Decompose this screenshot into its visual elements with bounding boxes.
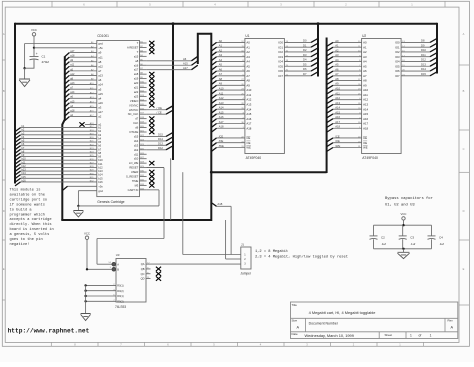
svg-text:IO3: IO3: [278, 55, 283, 59]
svg-text:Bypass capacitors for: Bypass capacitors for: [385, 196, 433, 201]
svg-text:QD: QD: [141, 277, 145, 281]
svg-text:A18: A18: [217, 202, 222, 206]
svg-text:/CE: /CE: [219, 134, 224, 138]
svg-text:A17: A17: [219, 120, 224, 124]
power symbol VCC (top-left): [32, 33, 35, 36]
svg-text:IO7: IO7: [278, 74, 283, 78]
svg-text:2: 2: [244, 258, 246, 261]
svg-text:A13: A13: [363, 103, 368, 107]
svg-text:a15: a15: [70, 100, 75, 103]
svg-text:a21: a21: [134, 86, 139, 90]
svg-text:A10: A10: [363, 88, 368, 92]
svg-text:D15: D15: [421, 72, 426, 76]
svg-text:a genesis, 5 volts: a genesis, 5 volts: [10, 232, 50, 237]
svg-text:/CE: /CE: [335, 134, 340, 138]
svg-text:a22: a22: [134, 90, 139, 94]
svg-text:A6: A6: [219, 67, 223, 71]
svg-text:A: A: [463, 32, 465, 36]
svg-text:TIME: TIME: [132, 179, 139, 183]
address bus spur (n-shape top): [198, 34, 212, 64]
svg-text:R9(1): R9(1): [117, 295, 123, 298]
address bus bottom run: [61, 219, 211, 221]
U3 clock pin A bubble: [112, 262, 116, 266]
svg-text:R0(1): R0(1): [117, 285, 123, 288]
svg-text:CD1001: CD1001: [97, 34, 109, 38]
ground (bypass): [403, 249, 405, 253]
bypass top rail: [374, 224, 432, 226]
svg-text:3: 3: [280, 3, 282, 7]
svg-text:Sheet: Sheet: [385, 333, 393, 337]
svg-text:a19: a19: [134, 77, 139, 81]
svg-text:VCC: VCC: [31, 28, 37, 32]
svg-text:QA: QA: [141, 262, 145, 266]
svg-text:A: A: [451, 326, 454, 330]
svg-text:A14: A14: [219, 106, 224, 110]
svg-text:a16: a16: [134, 63, 139, 67]
svg-text:a6: a6: [98, 78, 102, 82]
svg-text:WE: WE: [363, 146, 368, 150]
svg-text:a4: a4: [98, 96, 102, 100]
connector CD1001 body: [97, 41, 140, 197]
svg-text:A14: A14: [363, 107, 368, 111]
svg-text:a17: a17: [134, 68, 139, 72]
svg-text:A0: A0: [246, 41, 250, 45]
svg-text:/OE: /OE: [219, 139, 224, 143]
svg-text:a15: a15: [98, 92, 103, 96]
svg-text:A4: A4: [219, 58, 223, 62]
svg-text:CE: CE: [246, 136, 250, 140]
svg-text:b1: b1: [98, 126, 101, 130]
svg-text:IO1: IO1: [395, 45, 400, 49]
svg-text:goes to the pin: goes to the pin: [10, 237, 43, 242]
svg-text:b13: b13: [98, 169, 103, 173]
svg-text:a18: a18: [70, 109, 75, 112]
svg-text:.1uf: .1uf: [381, 242, 386, 246]
svg-text:D2: D2: [303, 48, 307, 52]
svg-text:C1: C1: [42, 55, 46, 59]
wire QA to J1 pin 3: [151, 263, 241, 265]
svg-text:A8: A8: [219, 77, 223, 81]
svg-text:D1: D1: [303, 43, 307, 47]
wire A18 from bus to J1 pin 1: [217, 205, 232, 207]
power symbol VCC (U3): [85, 236, 88, 239]
svg-text:U1, U2 and U3: U1, U2 and U3: [385, 202, 415, 207]
svg-text:A17: A17: [246, 122, 251, 126]
svg-text:b15: b15: [98, 176, 103, 180]
svg-text:A2: A2: [363, 50, 367, 54]
CD1001 right pins with no-connects and bus entries: [140, 42, 147, 44]
svg-text:LO_WE: LO_WE: [129, 161, 139, 165]
wire VCC to rail: [403, 220, 405, 225]
junction gnd bottom: [77, 205, 79, 207]
svg-text:A: A: [3, 32, 5, 36]
svg-text:a13: a13: [98, 74, 103, 78]
svg-text:C2: C2: [381, 235, 385, 239]
svg-text:board is inserted in: board is inserted in: [10, 227, 54, 232]
svg-text:A9: A9: [335, 82, 339, 86]
svg-text:IO2: IO2: [278, 50, 283, 54]
svg-text:D14: D14: [421, 67, 426, 71]
svg-text:a7: a7: [98, 69, 102, 73]
svg-text:A7: A7: [219, 72, 223, 76]
wire cart-A18 vertical: [182, 172, 184, 254]
svg-text:OE: OE: [246, 141, 250, 145]
svg-text:a8: a8: [98, 60, 102, 64]
svg-text:2,3 = 4 Megabit, High/low togg: 2,3 = 4 Megabit, High/low toggled by res…: [255, 255, 348, 260]
wire +5v pin to VCC node: [34, 47, 97, 49]
svg-text:T: T: [137, 50, 139, 54]
svg-text:A18: A18: [246, 126, 251, 130]
svg-text:C: C: [3, 147, 5, 151]
svg-text:IO0: IO0: [278, 41, 283, 45]
flash U2 AT49F040: [362, 39, 402, 154]
cartridge data bus (vertical x=173): [172, 23, 174, 160]
svg-text:A13: A13: [219, 101, 224, 105]
svg-text:A9: A9: [246, 83, 250, 87]
svg-text:A: A: [117, 262, 119, 266]
svg-text:A10: A10: [246, 88, 251, 92]
U3 clock pin B bubble: [112, 268, 116, 272]
svg-text:A10: A10: [335, 87, 340, 91]
svg-text:/WE: /WE: [335, 144, 340, 148]
svg-text:IO5: IO5: [278, 64, 283, 68]
svg-text:WE: WE: [246, 146, 251, 150]
U2 data bus vertical x=437: [436, 23, 438, 74]
ground (U3): [81, 314, 91, 321]
svg-text:/WE: /WE: [219, 144, 224, 148]
svg-text:gnd: gnd: [98, 189, 103, 193]
svg-text:D14: D14: [158, 137, 163, 141]
svg-text:HSYNC: HSYNC: [129, 108, 138, 112]
svg-text:d15: d15: [134, 134, 139, 138]
svg-text:+5v: +5v: [98, 46, 103, 50]
svg-text:CLK: CLK: [133, 121, 138, 125]
svg-text:C3: C3: [410, 235, 414, 239]
svg-text:b3: b3: [98, 133, 101, 137]
svg-text:A15: A15: [335, 110, 340, 114]
svg-text:E: E: [3, 267, 5, 271]
svg-text:3: 3: [244, 263, 246, 266]
svg-text:1: 1: [430, 334, 432, 338]
svg-text:B: B: [117, 268, 119, 272]
svg-text:R0(2): R0(2): [117, 290, 123, 293]
svg-text:A3: A3: [363, 55, 367, 59]
svg-text:Genesis Cartridge: Genesis Cartridge: [97, 200, 124, 204]
svg-text:a17: a17: [98, 110, 103, 114]
svg-text:A12: A12: [219, 96, 224, 100]
svg-text:6: 6: [83, 3, 85, 7]
svg-text:RESET: RESET: [129, 166, 138, 170]
bus junction at x=318: [317, 22, 320, 25]
svg-text:2: 2: [345, 3, 347, 7]
svg-text:U1: U1: [245, 34, 249, 38]
svg-text:A5: A5: [335, 63, 339, 67]
svg-text:D7: D7: [303, 72, 307, 76]
svg-text:1: 1: [410, 334, 412, 338]
svg-text:A15: A15: [183, 61, 188, 65]
wire ground return y=206: [78, 205, 159, 207]
svg-text:b11: b11: [98, 162, 103, 166]
counter U3 body: [116, 259, 146, 303]
svg-text:C4: C4: [439, 235, 443, 239]
svg-text:a14: a14: [98, 83, 103, 87]
wire gnd down-left vertical: [24, 44, 26, 69]
svg-text:C: C: [463, 147, 465, 151]
jumper J1 body: [241, 247, 251, 269]
wire VCC stem: [33, 36, 35, 48]
svg-text:a18: a18: [70, 55, 75, 58]
svg-text:d11: d11: [134, 152, 139, 156]
data bus (top horizontal): [15, 23, 437, 25]
svg-text:a17: a17: [70, 50, 75, 53]
bus junction at x=173: [172, 22, 175, 25]
svg-text:A3: A3: [335, 53, 339, 57]
svg-text:b14: b14: [22, 172, 27, 175]
svg-text:IO1: IO1: [278, 45, 283, 49]
junction gnd node: [23, 67, 25, 69]
svg-text:A12: A12: [363, 98, 368, 102]
svg-text:A6: A6: [335, 67, 339, 71]
U2 address bus vertical x=326.6: [326, 38, 328, 174]
svg-text:CE: CE: [363, 136, 367, 140]
svg-text:QC: QC: [141, 272, 145, 276]
svg-text:A15: A15: [363, 112, 368, 116]
svg-text:1,2 = 8 Megabit: 1,2 = 8 Megabit: [255, 249, 288, 254]
svg-text:A RESET: A RESET: [127, 45, 139, 49]
svg-text:b10: b10: [22, 158, 27, 161]
svg-text:+5v: +5v: [98, 184, 103, 188]
svg-text:/OE: /OE: [335, 139, 340, 143]
svg-text:A17: A17: [335, 120, 340, 124]
svg-text:A7: A7: [363, 74, 367, 78]
svg-text:IO5: IO5: [395, 64, 400, 68]
svg-text:b9: b9: [98, 155, 101, 159]
svg-text:4 Megabit cart, HI, 4 Megabit: 4 Megabit cart, HI, 4 Megabit togglable: [309, 310, 376, 315]
wire J1 pin1 horizontal: [183, 254, 241, 256]
svg-text:a15: a15: [134, 54, 139, 58]
svg-text:A14: A14: [335, 106, 340, 110]
svg-text:A1: A1: [363, 45, 367, 49]
svg-text:b14: b14: [98, 173, 103, 177]
svg-text:U3: U3: [116, 253, 120, 257]
svg-text:74LS93: 74LS93: [115, 305, 126, 309]
svg-text:b10: b10: [98, 158, 103, 162]
svg-text:to build a: to build a: [10, 207, 33, 212]
svg-text:A16: A16: [363, 117, 368, 121]
svg-text:D13: D13: [421, 62, 426, 66]
svg-text:R9(2): R9(2): [117, 300, 123, 303]
U3 reset input pins: [86, 284, 116, 286]
svg-text:A7: A7: [246, 74, 250, 78]
bus entry A18: [212, 203, 217, 206]
svg-text:A18: A18: [219, 125, 224, 129]
svg-text:a16: a16: [98, 101, 103, 105]
svg-text:A8: A8: [335, 77, 339, 81]
CD1001 gnd bottom pin wire: [78, 190, 96, 192]
svg-text:T: T: [137, 41, 139, 45]
svg-text:directly. When this: directly. When this: [10, 222, 52, 227]
svg-text:VIDEO: VIDEO: [130, 99, 138, 103]
junction bottom rail: [402, 248, 404, 250]
svg-text:D4: D4: [303, 58, 307, 62]
svg-text:AT49F040: AT49F040: [246, 156, 262, 160]
svg-text:A13: A13: [335, 101, 340, 105]
svg-text:E: E: [463, 267, 465, 271]
svg-text:B: B: [3, 89, 5, 93]
svg-text:DTAKE: DTAKE: [130, 130, 139, 134]
svg-text:A9: A9: [219, 82, 223, 86]
svg-text:A7: A7: [335, 72, 339, 76]
svg-text:A12: A12: [246, 98, 251, 102]
svg-text:A1: A1: [335, 44, 339, 48]
svg-text:b15: b15: [22, 176, 27, 179]
svg-text:VSYNC: VSYNC: [129, 103, 138, 107]
svg-text:B: B: [463, 89, 465, 93]
svg-text:A3: A3: [246, 55, 250, 59]
svg-text:1: 1: [244, 254, 246, 257]
svg-text:Jumper: Jumper: [240, 272, 252, 276]
power symbol VCC (bypass): [402, 217, 405, 220]
wire CART IN loop: [158, 190, 160, 206]
U3 output pins QA-QD: [146, 263, 151, 265]
svg-text:A4: A4: [335, 58, 339, 62]
svg-text:Wednesday, March 10, 1999: Wednesday, March 10, 1999: [305, 333, 354, 338]
svg-text:b12: b12: [98, 165, 103, 169]
svg-text:A6: A6: [246, 69, 250, 73]
svg-text:A5: A5: [246, 64, 250, 68]
svg-text:A11: A11: [219, 91, 224, 95]
svg-text:A9: A9: [363, 83, 367, 87]
svg-text:J1: J1: [241, 243, 244, 247]
svg-text:QB: QB: [141, 267, 145, 271]
svg-text:b16: b16: [22, 179, 27, 182]
svg-text:b2: b2: [98, 129, 101, 133]
svg-text:D15: D15: [158, 133, 163, 137]
svg-text:IO6: IO6: [395, 69, 400, 73]
svg-text:S_RESET: S_RESET: [126, 175, 139, 179]
address bus A (vertical left of cartridge): [62, 56, 65, 220]
svg-text:A0: A0: [335, 39, 339, 43]
svg-text:VCC: VCC: [401, 212, 407, 216]
svg-text:negative!: negative!: [10, 242, 30, 247]
svg-text:A1: A1: [219, 44, 223, 48]
svg-text:A14: A14: [246, 107, 251, 111]
svg-text:14: 14: [108, 262, 111, 264]
svg-text:D12: D12: [421, 58, 426, 62]
svg-text:a11: a11: [98, 55, 103, 59]
svg-text:a5: a5: [98, 87, 102, 91]
svg-text:A: A: [297, 326, 300, 330]
svg-text:A15: A15: [219, 110, 224, 114]
svg-text:A8: A8: [246, 79, 250, 83]
svg-text:D6: D6: [303, 67, 307, 71]
svg-text:A4: A4: [363, 60, 367, 64]
svg-text:A1: A1: [246, 45, 250, 49]
svg-text:A18: A18: [335, 125, 340, 129]
svg-text:d12: d12: [134, 148, 139, 152]
ground (C1): [24, 68, 26, 79]
svg-text:A0: A0: [219, 39, 223, 43]
svg-text:USER: USER: [131, 170, 139, 174]
svg-text:.1uf: .1uf: [439, 242, 444, 246]
svg-text:M3: M3: [135, 183, 139, 187]
svg-text:CART IN: CART IN: [128, 188, 139, 192]
svg-text:IO3: IO3: [395, 55, 400, 59]
svg-text:A2: A2: [335, 48, 339, 52]
svg-text:A10: A10: [219, 87, 224, 91]
svg-text:d10: d10: [134, 157, 139, 161]
flash U1 AT49F040: [245, 39, 285, 154]
svg-text:if someone wants: if someone wants: [10, 202, 45, 207]
svg-text:Date: Date: [292, 332, 298, 336]
svg-text:A4: A4: [246, 60, 250, 64]
svg-text:IO6: IO6: [278, 69, 283, 73]
svg-text:4: 4: [214, 3, 216, 7]
svg-text:VCC: VCC: [84, 232, 90, 236]
svg-text:b11: b11: [22, 161, 27, 164]
svg-text:A2: A2: [246, 50, 250, 54]
svg-text:A11: A11: [335, 91, 340, 95]
bus junction at (211,172): [210, 171, 213, 174]
svg-text:A18: A18: [363, 126, 368, 130]
svg-text:+: +: [36, 52, 38, 56]
svg-text:programmer which: programmer which: [10, 212, 45, 217]
svg-text:accepts a cartridge: accepts a cartridge: [10, 217, 52, 222]
svg-text:a2: a2: [98, 115, 102, 119]
junction VCC-B: [86, 268, 88, 270]
bypass bottom rail: [374, 248, 432, 250]
svg-text:D10: D10: [421, 48, 426, 52]
svg-text:b7: b7: [98, 147, 101, 151]
svg-text:This module is: This module is: [10, 187, 41, 192]
svg-text:Size: Size: [292, 319, 298, 323]
wire gnd pin to left: [25, 43, 97, 45]
svg-text:/ CE: / CE: [157, 110, 162, 114]
svg-text:A2: A2: [219, 48, 223, 52]
junction VCC node: [33, 47, 35, 49]
svg-text:b12: b12: [22, 165, 27, 168]
ground (cartridge): [77, 206, 79, 211]
svg-text:A5: A5: [219, 63, 223, 67]
svg-text:1: 1: [411, 3, 413, 7]
junction top rail: [402, 224, 404, 226]
svg-text:IO4: IO4: [278, 60, 283, 64]
svg-text:b6: b6: [98, 144, 101, 148]
svg-text:A16: A16: [246, 117, 251, 121]
border zone ticks: [51, 1, 53, 7]
svg-text:D11: D11: [421, 53, 426, 57]
svg-text:IO7: IO7: [395, 74, 400, 78]
svg-text:b4: b4: [98, 136, 101, 140]
svg-text:a13: a13: [70, 82, 75, 85]
svg-text:1: 1: [110, 267, 112, 269]
svg-text:a20: a20: [134, 81, 139, 85]
svg-text:b5: b5: [98, 140, 101, 144]
U1 data bus vertical x=318: [317, 23, 319, 77]
svg-text:/ OE: / OE: [157, 106, 163, 110]
svg-text:d6: d6: [135, 126, 138, 130]
svg-text:A17: A17: [183, 66, 188, 70]
svg-text:http://www.raphnet.net: http://www.raphnet.net: [8, 328, 90, 335]
svg-text:D12: D12: [158, 146, 163, 150]
svg-text:a14: a14: [70, 91, 75, 94]
svg-text:a8: a8: [135, 59, 138, 63]
svg-text:a12: a12: [70, 73, 75, 76]
wire flashA18 to J1 pin2: [225, 220, 227, 259]
svg-text:A15: A15: [246, 112, 251, 116]
svg-text:Document Number: Document Number: [309, 322, 339, 326]
svg-text:A13: A13: [246, 103, 251, 107]
